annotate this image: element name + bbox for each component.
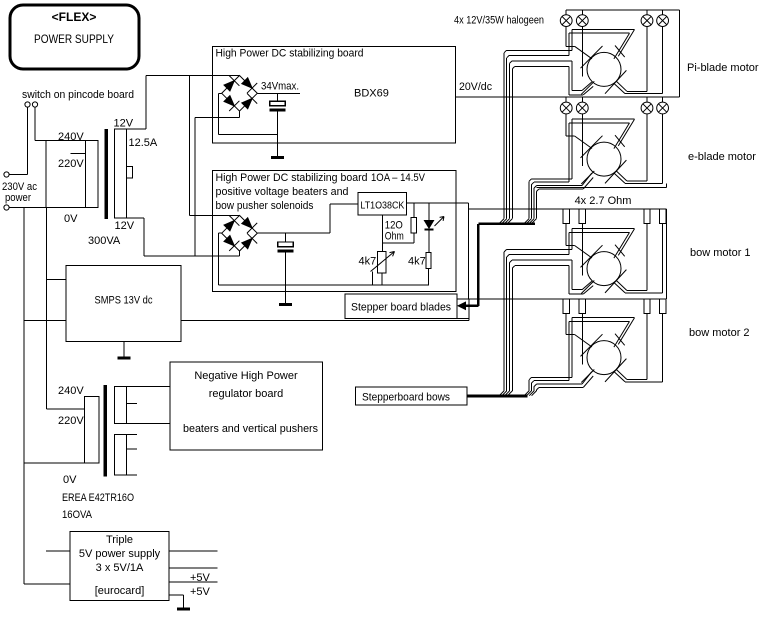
svg-text:+5V: +5V (190, 586, 211, 598)
resistor 2.7 Ohm R2 bow1 (579, 209, 585, 224)
wire: 120 Ohm resistor top connection (413, 203, 415, 218)
label: triple supply (79, 534, 161, 597)
wire: branch down to board 2 bridge input (190, 76, 240, 216)
wire: bridge B2 output to LT1038 (257, 204, 358, 233)
wire: bridge B2 minus to ground bus (219, 233, 429, 285)
label: 120 Ohm (385, 220, 404, 243)
lamp L4 e-blade (657, 97, 669, 114)
lamp L2 e-blade (576, 97, 588, 114)
svg-text:[eurocard]: [eurocard] (95, 585, 145, 597)
wire: blades box bottom edge extension (457, 318, 469, 320)
wire: potentiometer bottom leg to bus (381, 273, 383, 285)
wires: bundle feeds to motor e-blade (529, 179, 583, 192)
svg-text:EREA E42TR16O: EREA E42TR16O (62, 492, 134, 504)
label: negative board title (183, 370, 318, 435)
svg-text:positive voltage beaters and: positive voltage beaters and (216, 186, 349, 198)
wire: 120 Ohm resistor to ADJ node (382, 233, 413, 243)
motor Pi-blade (581, 46, 627, 95)
resistor 2.7 Ohm R4 bow2 (659, 299, 665, 314)
svg-text:Stepperboard bows: Stepperboard bows (362, 392, 450, 404)
wire: LED branch top (428, 203, 430, 221)
svg-text:POWER SUPPLY: POWER SUPPLY (34, 32, 114, 46)
bow motor 2 top rail (457, 298, 666, 300)
wire: bridge B1 output 34V (257, 92, 300, 94)
svg-text:240V: 240V (58, 131, 84, 143)
wire pair: motor bow2 upper-right (569, 318, 635, 347)
ground below SMPS (117, 357, 130, 360)
wire: load1 to motor bow2 UL contact (566, 314, 574, 335)
svg-text:BDX69: BDX69 (354, 88, 389, 100)
wire: load2 to motor bow1 top (581, 224, 583, 276)
capacitor C1 (270, 101, 286, 111)
resistor R 4k7 (426, 253, 431, 269)
wire: potentiometer wiper leg to bus (372, 272, 374, 286)
transformer T1 core (104, 129, 108, 219)
wire pair: motor e-blade upper-right risers (569, 119, 572, 182)
wire: LED to 4k7 resistor (428, 231, 430, 253)
wire: load1 to motor e-blade UL contact (566, 114, 574, 136)
svg-text:5V power supply: 5V power supply (79, 548, 161, 560)
transformer T2 primary winding (84, 397, 99, 464)
svg-text:300VA: 300VA (88, 235, 121, 247)
resistor 2.7 Ohm R3 bow1 (644, 209, 650, 224)
wire pair: motor Pi-blade lower-right to loads 3 4 (614, 27, 662, 94)
wire: 240V feed to T2 (46, 408, 84, 410)
svg-text:4x 12V/35W halogeen: 4x 12V/35W halogeen (454, 15, 544, 27)
wire pair: motor bow1 lower-right to loads 3 4 (614, 224, 662, 293)
wire pair: motor e-blade lower-right to loads 3 4 (614, 114, 662, 183)
wire: capacitor C2 to ground (285, 252, 287, 303)
svg-text:SMPS 13V dc: SMPS 13V dc (95, 295, 153, 307)
wire: rail to SMPS input 2 (24, 320, 66, 322)
resistor 2.7 Ohm R2 bow2 (579, 299, 585, 314)
transformer T2 secondary winding 1 (115, 387, 170, 424)
svg-text:bow pusher solenoids: bow pusher solenoids (216, 200, 314, 212)
svg-text:<FLEX>: <FLEX> (52, 10, 97, 24)
svg-text:16OVA: 16OVA (62, 509, 93, 521)
resistor 2.7 Ohm R1 bow1 (563, 209, 569, 224)
wire pair: motor Pi-blade upper-right risers (569, 30, 572, 56)
wires: bundle feeds to motor Pi-blade (504, 50, 572, 69)
Stepperboard bows box (356, 387, 467, 405)
svg-text:12V: 12V (114, 118, 134, 130)
svg-text:12V: 12V (115, 220, 135, 232)
wire pair: motor Pi-blade upper-right (569, 30, 635, 59)
wire: load1 to motor Pi-blade UL contact (566, 27, 574, 47)
wire pair: motor bow1 lower-left (569, 260, 593, 294)
Stepper board blades box (345, 294, 457, 319)
wire: branch up to board 1 bridge input (195, 112, 240, 256)
svg-text:Ohm: Ohm (385, 231, 404, 243)
svg-text:0V: 0V (64, 213, 78, 225)
wire: rail to triple supply (24, 583, 70, 585)
switch S1 terminal 1 (25, 102, 30, 107)
wire: load1 to motor bow1 UL contact (566, 224, 574, 246)
wire: LT1038 ADJ to potentiometer (381, 215, 383, 251)
resistor R 120 Ohm (411, 218, 416, 234)
LED D1 (424, 217, 444, 231)
wire: load2 to motor e-blade top (581, 114, 583, 166)
wire: SMPS ground (123, 341, 125, 356)
svg-text:20V/dc: 20V/dc (459, 81, 492, 93)
wire: load2 to motor Pi-blade top (581, 27, 583, 77)
resistor 2.7 Ohm R4 bow1 (659, 209, 665, 224)
resistor 2.7 Ohm R3 bow2 (644, 299, 650, 314)
svg-text:12.5A: 12.5A (129, 137, 158, 149)
potentiometer 4k7 (371, 251, 395, 273)
wire pair: motor bow2 lower-right to loads 3 4 (614, 314, 662, 382)
wire: switch to transformer 240V tap (35, 107, 46, 141)
Pi-blade motor box (566, 10, 679, 97)
svg-text:4k7: 4k7 (359, 256, 377, 268)
transformer T1 secondary winding (115, 129, 133, 218)
transformer T2 secondary winding 2 (115, 434, 138, 475)
left rail 2 (240V) (45, 208, 47, 409)
lamp L3 e-blade (641, 97, 653, 114)
svg-text:0V: 0V (63, 474, 77, 486)
svg-text:220V: 220V (58, 158, 84, 170)
wire: secondary bottom to board 2 (127, 218, 240, 256)
svg-text:220V: 220V (58, 415, 84, 427)
svg-text:3 x 5V/1A: 3 x 5V/1A (96, 562, 144, 574)
wire: upper 230V terminal to switch (9, 107, 27, 174)
wire: capacitor C1 to ground (277, 111, 279, 156)
bridge rectifier B1 (222, 76, 258, 112)
wire: LT1038 output to bow motors (407, 203, 469, 299)
svg-text:beaters and vertical pushers: beaters and vertical pushers (183, 423, 318, 435)
wire: 20V/dc rail to motor units (456, 96, 680, 98)
motor e-blade (581, 135, 627, 184)
board 2 box: High Power DC stabilizing board positive (213, 170, 457, 291)
svg-text:e-blade motor: e-blade motor (688, 151, 756, 163)
wire pair: motor bow2 lower-left diagonals (582, 372, 593, 388)
wire: secondary top to bridges (127, 76, 240, 130)
e-blade box bottom edge (536, 183, 666, 187)
motor bow2 (581, 334, 627, 383)
svg-text:bow motor 1: bow motor 1 (690, 247, 751, 259)
wire: load2 to motor bow2 top (581, 314, 583, 365)
wire: rail to SMPS input 1 (46, 279, 66, 281)
cable bundle: bows group A (499, 252, 512, 396)
wire: bridge B1 minus to capacitor (219, 93, 278, 134)
wire: 5V output 2 (169, 567, 218, 569)
ground below board 2 (279, 303, 292, 306)
cable bundle: blades group A (499, 53, 512, 224)
wire pair: motor Pi-blade lower-left (569, 61, 593, 95)
wire: 0V line to T2 (24, 462, 84, 464)
lamp L1 Pi-blade (560, 10, 572, 26)
wires: bundle feeds to motor bow1 (504, 250, 572, 269)
wire pair: motor bow1 upper-right risers (569, 229, 572, 255)
lamp L3 Pi-blade (641, 10, 653, 26)
wire: capacitor C1 top connection (277, 93, 279, 101)
wire: 5V output 1 (169, 550, 218, 552)
wire pair: motor e-blade upper-right (569, 119, 635, 148)
svg-text:+5V: +5V (190, 572, 211, 584)
cable bundle: blades group B (524, 181, 536, 223)
cable bundle: bows group B (524, 380, 536, 396)
svg-text:34Vmax.: 34Vmax. (261, 81, 299, 93)
svg-text:regulator board: regulator board (209, 388, 284, 400)
switch S1 terminal 2 (32, 102, 37, 107)
wire pair: motor bow2 upper-right risers (569, 318, 572, 381)
Negative High Power regulator board box (170, 362, 323, 450)
svg-text:bow motor 2: bow motor 2 (689, 327, 750, 339)
svg-text:Stepper board blades: Stepper board blades (351, 302, 451, 314)
svg-text:Triple: Triple (106, 534, 133, 546)
capacitor C2 (278, 242, 294, 252)
wire pair: motor e-blade lower-left diagonals (582, 173, 593, 189)
svg-text:High Power DC stabilizing boar: High Power DC stabilizing board (216, 48, 364, 60)
lamp L4 Pi-blade (657, 10, 669, 26)
transformer T2 core (103, 385, 107, 477)
SMPS 13V dc box (66, 266, 181, 342)
230V ac terminal upper (4, 172, 9, 177)
bow motor 1 box (469, 209, 667, 299)
lamp L1 e-blade (560, 97, 572, 114)
label: 230V ac power (2, 181, 37, 204)
svg-text:240V: 240V (58, 385, 84, 397)
230V ac terminal lower (4, 205, 9, 210)
arrowhead into blades box (458, 302, 466, 309)
wire: capacitor C2 top connection (285, 233, 287, 242)
bridge rectifier B2 (222, 215, 258, 251)
transformer T1 primary winding (46, 141, 98, 208)
svg-text:Negative High Power: Negative High Power (194, 370, 298, 382)
wire: 0V line from lower terminal (9, 207, 98, 209)
wires: bundle feeds to motor bow2 (529, 377, 583, 390)
thick cable: bows stepper to bundle (467, 395, 527, 398)
wire: triple supply ground stub (169, 595, 183, 607)
svg-text:4x 2.7 Ohm: 4x 2.7 Ohm (575, 195, 632, 207)
resistor 2.7 Ohm R1 bow2 (563, 299, 569, 314)
board 1 box: High Power DC stabilizing board (213, 46, 456, 143)
svg-text:power: power (5, 192, 31, 204)
Triple 5V power supply box (70, 532, 169, 601)
wire pair: motor bow1 upper-right (569, 229, 635, 258)
regulator U1 LT1038CK box (358, 193, 406, 216)
ground below triple supply (177, 608, 190, 611)
wire: input stub to triple supply (46, 550, 70, 552)
svg-text:1OA – 14.5V: 1OA – 14.5V (371, 172, 426, 184)
wire: 4k7 resistor to bus (427, 268, 429, 285)
thick cable: blades stepper to bundle (461, 224, 535, 306)
lamp L2 Pi-blade (576, 10, 588, 26)
svg-text:switch on pincode board: switch on pincode board (22, 89, 134, 101)
wire: 5V output 3 (169, 581, 218, 583)
svg-text:High Power DC stabilizing boa: High Power DC stabilizing board (216, 172, 368, 184)
FLEX power supply title box (10, 5, 139, 69)
svg-text:4k7: 4k7 (408, 256, 426, 268)
svg-text:LT1O38CK: LT1O38CK (360, 201, 404, 212)
wire: SMPS 13V output (181, 299, 469, 321)
motor bow1 (581, 245, 627, 294)
ground below board 1 (271, 156, 284, 159)
left rail 1 (0V) (23, 208, 25, 585)
svg-text:Pi-blade motor: Pi-blade motor (687, 62, 759, 74)
